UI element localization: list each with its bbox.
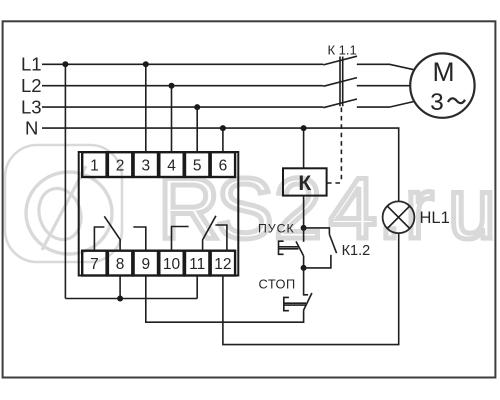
- relay device body: [79, 152, 239, 276]
- svg-text:6: 6: [219, 158, 228, 175]
- terminal 9: [134, 251, 158, 276]
- terminal 5: [185, 152, 209, 177]
- svg-text:К 1.1: К 1.1: [328, 43, 357, 58]
- wire L1: [42, 63, 323, 65]
- pushbutton start blade: [296, 241, 304, 256]
- wire coil K to start button: [303, 196, 305, 228]
- svg-text:N: N: [25, 117, 38, 138]
- terminal 2: [108, 152, 132, 177]
- svg-text:11: 11: [189, 256, 205, 273]
- svg-text:К1.2: К1.2: [342, 243, 371, 259]
- node L1 left junction: [62, 61, 68, 67]
- coil K box: [283, 168, 327, 195]
- contact K1.1 pole 2 blade: [323, 78, 357, 87]
- wire L2 to motor: [357, 85, 411, 87]
- wire L1 to terminal 3: [145, 64, 147, 152]
- relay contact fixed point terminal 12: [215, 225, 227, 251]
- svg-text:8: 8: [116, 256, 125, 273]
- svg-text:7: 7: [90, 256, 99, 273]
- contact K1.2 blade: [329, 234, 336, 253]
- svg-text:9: 9: [141, 256, 150, 273]
- terminal 1: [82, 152, 106, 177]
- svg-text:L2: L2: [21, 75, 42, 96]
- pushbutton start plunger: [279, 241, 299, 254]
- terminal 3: [134, 152, 158, 177]
- pushbutton stop plunger: [284, 297, 306, 310]
- svg-text:HL1: HL1: [420, 209, 450, 227]
- svg-text:M: M: [432, 57, 454, 87]
- wire L2: [42, 85, 323, 87]
- wire N: [42, 128, 399, 201]
- wire terminal 9 to stop button: [146, 276, 304, 323]
- wire N to terminal 6: [222, 128, 224, 152]
- svg-text:К: К: [298, 172, 311, 195]
- relay contact fixed point terminal 10: [172, 227, 189, 251]
- contact K1.2 top lead: [304, 228, 330, 235]
- svg-text:3: 3: [430, 89, 444, 116]
- wire N to coil K: [303, 128, 305, 168]
- svg-text:4: 4: [167, 158, 176, 175]
- terminal 7: [82, 251, 106, 276]
- pushbutton stop blade: [304, 293, 312, 310]
- wire L1 bottom bus: [65, 298, 197, 300]
- svg-text:ПУСК: ПУСК: [258, 221, 295, 235]
- motor M1 circle: [410, 53, 474, 117]
- node L1 to terminal 3: [143, 61, 149, 67]
- wire L1 drop to bottom bus: [64, 64, 66, 298]
- relay contact blade terminal 11: [203, 216, 216, 251]
- terminal 11: [185, 251, 209, 276]
- motor tilde symbol: [448, 98, 465, 103]
- wire L3 to motor: [357, 101, 415, 107]
- node L2 to terminal 4: [169, 83, 175, 89]
- node N to terminal 6: [220, 125, 226, 131]
- contact K1.1 pole 3 blade: [323, 99, 357, 108]
- node start top junction: [301, 225, 307, 231]
- relay contact blade terminal 8: [104, 216, 120, 250]
- svg-text:1: 1: [90, 158, 99, 175]
- wire L2 to terminal 4: [171, 86, 173, 152]
- terminal 4: [159, 152, 183, 177]
- svg-text:L1: L1: [21, 54, 42, 75]
- relay contact fixed point terminal 7: [94, 227, 104, 251]
- terminal 6: [211, 152, 235, 177]
- node start bottom junction: [301, 265, 307, 271]
- wire L3: [42, 106, 323, 108]
- svg-text:L3: L3: [21, 96, 42, 117]
- node terminal 8 junction: [117, 296, 123, 302]
- wire bus to terminal 11: [196, 276, 198, 299]
- wire L3 to terminal 5: [196, 107, 198, 152]
- svg-text:3: 3: [141, 158, 150, 175]
- contact K1.1 linkage bar: [340, 57, 343, 107]
- terminal 8: [108, 251, 132, 276]
- wire terminal 12 to lamp HL1: [223, 233, 399, 344]
- dashed link K1.1 to coil K: [327, 108, 341, 184]
- pushbutton stop top lead: [304, 268, 309, 295]
- wire terminal 8 to L1 bus: [119, 276, 121, 299]
- svg-text:СТОП: СТОП: [259, 277, 296, 292]
- terminal 10: [159, 251, 183, 276]
- contact K1.2 bottom lead: [304, 255, 331, 268]
- lamp HL1: [383, 201, 415, 233]
- terminal 12: [211, 251, 235, 276]
- svg-text:10: 10: [163, 256, 181, 273]
- svg-text:12: 12: [214, 256, 231, 273]
- node N coil junction: [301, 125, 307, 131]
- node L3 to terminal 5: [194, 104, 200, 110]
- contact K1.1 pole 1 blade: [323, 56, 357, 65]
- pushbutton start top lead: [303, 228, 305, 242]
- svg-text:2: 2: [116, 158, 125, 175]
- pushbutton start bottom lead: [303, 256, 305, 268]
- relay contact fixed point terminal 9: [133, 227, 146, 251]
- wire L1 to motor: [357, 64, 415, 70]
- svg-text:5: 5: [193, 158, 202, 175]
